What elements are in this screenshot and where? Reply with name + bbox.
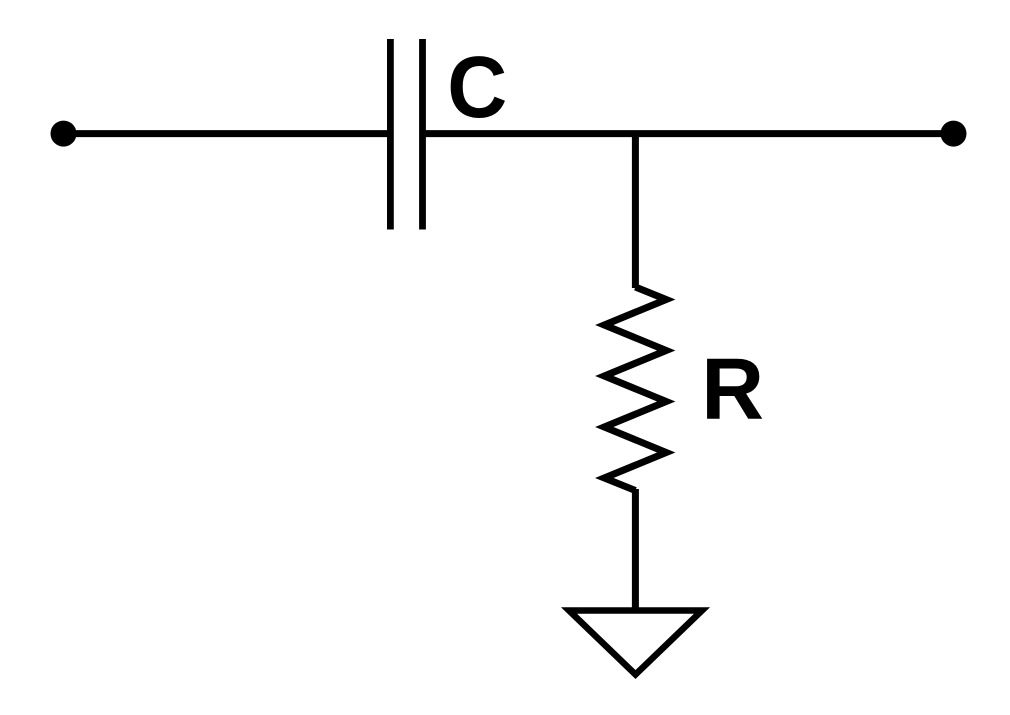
svg-text:R: R	[701, 341, 764, 438]
svg-text:C: C	[447, 39, 507, 136]
